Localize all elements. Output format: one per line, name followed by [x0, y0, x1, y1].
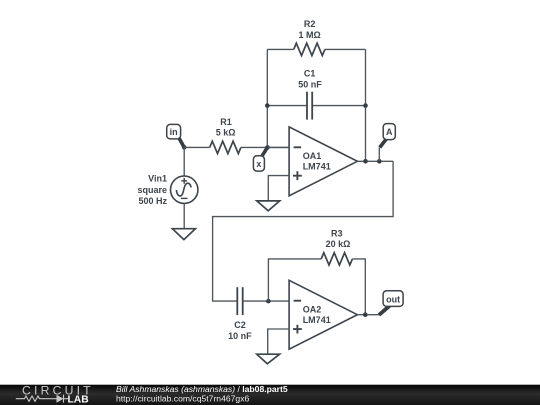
ground for Vin1 — [172, 229, 195, 240]
resistor R2 — [294, 43, 325, 55]
svg-text:LM741: LM741 — [303, 315, 331, 325]
junction OA2 output — [363, 312, 368, 317]
wire C1 branch — [267, 105, 307, 107]
wire OA2 plus input to ground — [268, 329, 289, 354]
svg-text:out: out — [386, 294, 400, 304]
svg-text:LM741: LM741 — [303, 161, 331, 171]
wire left loop vertical (R2/C1 left) — [266, 49, 268, 147]
junction OA1 output feedback — [363, 159, 368, 164]
wire R2 branch horizontal — [267, 48, 293, 50]
svg-text:R1: R1 — [220, 117, 232, 127]
node flag in — [167, 124, 185, 147]
ground for OA2 — [257, 354, 280, 364]
node flag A — [379, 124, 395, 162]
op-amp OA2 — [289, 280, 357, 349]
wire feedback from A down and across — [213, 161, 394, 301]
svg-text:1 MΩ: 1 MΩ — [298, 30, 320, 40]
junction C1 left — [265, 103, 270, 108]
wire OA1 output — [357, 160, 393, 162]
wire C1 right stub — [312, 105, 365, 107]
wire OA1 plus input to ground — [268, 176, 289, 201]
junction node A — [377, 159, 382, 164]
wire in to R1 — [184, 146, 210, 148]
resistor R3 — [321, 253, 352, 265]
svg-text:R3: R3 — [331, 228, 343, 238]
wire R3 branch — [268, 259, 321, 301]
capacitor C2 — [236, 287, 238, 315]
svg-text:10 nF: 10 nF — [228, 331, 252, 341]
op-amp OA1 — [289, 127, 357, 196]
svg-text:in: in — [170, 127, 178, 137]
junction node x — [265, 145, 270, 150]
svg-text:500 Hz: 500 Hz — [138, 196, 167, 206]
resistor R1 — [210, 141, 241, 153]
svg-text:x: x — [256, 159, 261, 169]
svg-text:C2: C2 — [234, 320, 246, 330]
junction C1 right — [363, 103, 368, 108]
node flag out — [379, 291, 403, 315]
svg-text:OA2: OA2 — [303, 304, 322, 314]
wire R3 right to OA2 output — [352, 259, 365, 315]
footer bar — [0, 385, 540, 405]
wire OA2 output — [357, 314, 379, 316]
svg-text:50 nF: 50 nF — [298, 79, 322, 89]
wire R1 to node x — [241, 146, 289, 148]
svg-text:OA1: OA1 — [303, 151, 322, 161]
CircuitLab logo resistor squiggle and diode — [16, 395, 68, 403]
svg-text:5 kΩ: 5 kΩ — [216, 128, 236, 138]
junction OA2 inverting node — [266, 299, 271, 304]
svg-text:A: A — [386, 127, 393, 137]
wire C2 to OA2 minus input — [243, 300, 289, 302]
wire right loop vertical — [365, 49, 367, 161]
wire R2 right stub — [325, 48, 366, 50]
ground for OA1 — [257, 201, 280, 211]
node flag x — [253, 147, 267, 171]
svg-text:R2: R2 — [304, 19, 316, 29]
capacitor C1 — [306, 92, 308, 120]
svg-text:http://circuitlab.com/cq5t7rn4: http://circuitlab.com/cq5t7rn467gx6 — [116, 393, 249, 403]
svg-text:C1: C1 — [304, 69, 316, 79]
wire x node to OA1 minus input — [268, 146, 290, 148]
svg-text:LAB: LAB — [68, 394, 89, 405]
svg-text:square: square — [137, 185, 167, 195]
svg-text:20 kΩ: 20 kΩ — [326, 239, 351, 249]
junction node in — [182, 145, 187, 150]
voltage source Vin1 — [171, 147, 198, 228]
svg-text:Vin1: Vin1 — [148, 174, 167, 184]
